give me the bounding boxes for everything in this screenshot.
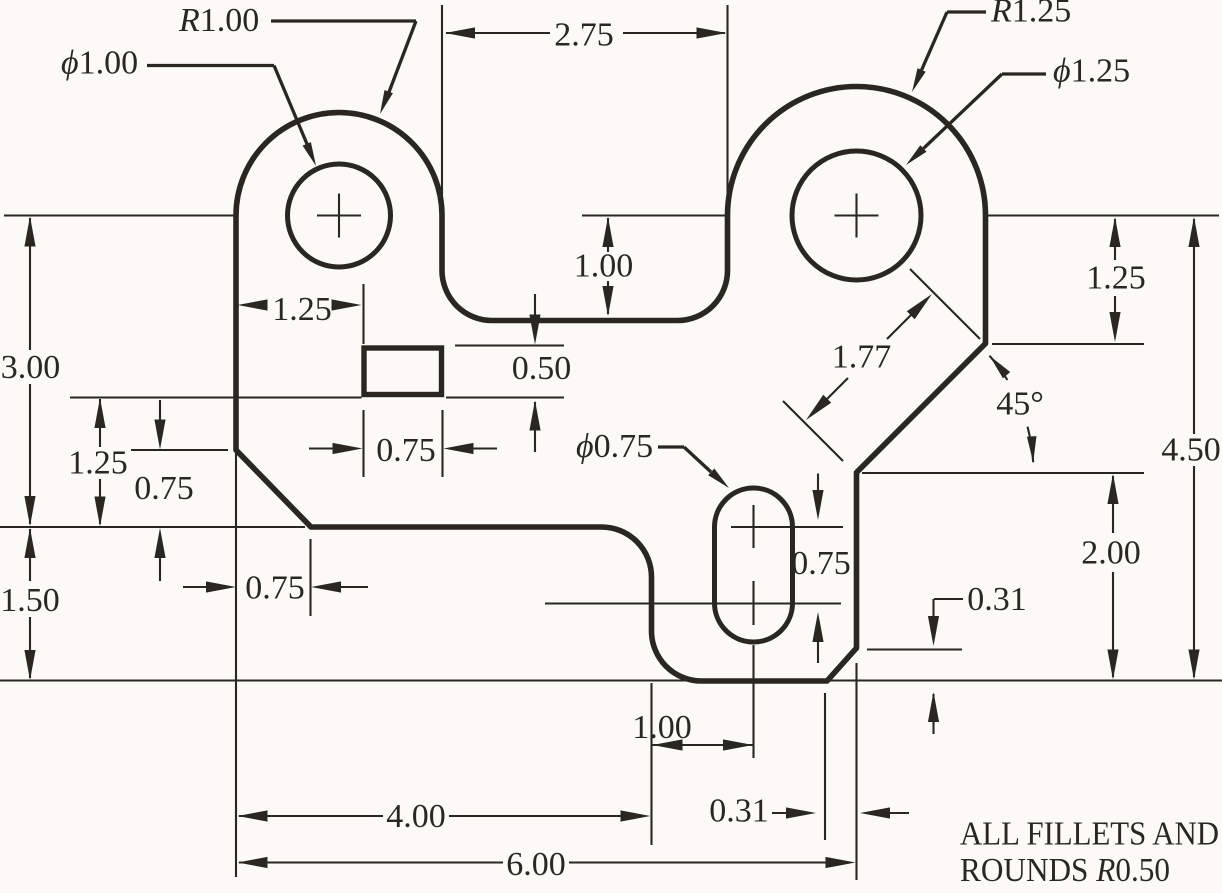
slot lower center cross	[752, 581, 754, 625]
rect right ext down	[441, 410, 443, 477]
dimension 0.75 (slant width)	[183, 586, 210, 588]
svg-text:1.25: 1.25	[272, 291, 332, 328]
rect top ext right	[455, 344, 564, 346]
2.75 right ext	[726, 5, 728, 215]
notch edge ext down	[650, 683, 652, 845]
rect left ext down	[362, 410, 364, 477]
svg-text:0.31: 0.31	[709, 793, 769, 830]
slot upper centerline	[731, 526, 843, 528]
dimension 1.50	[29, 529, 31, 581]
part outline (plate)	[236, 86, 986, 681]
bottom datum line	[0, 679, 1222, 681]
svg-text:4.50: 4.50	[1161, 432, 1221, 469]
dimension 1.25 (left, rect to line)	[99, 399, 101, 447]
right edge ext down	[855, 663, 857, 880]
svg-text:R1.00: R1.00	[178, 2, 259, 39]
svg-text:1.00: 1.00	[632, 709, 692, 746]
svg-text:45°: 45°	[996, 386, 1044, 423]
dimension 2.75	[446, 32, 550, 34]
2.00 top ext line	[862, 472, 1144, 474]
right hole center cross	[835, 214, 879, 216]
svg-text:0.75: 0.75	[245, 570, 305, 607]
top datum line left	[4, 214, 236, 216]
0.31 chamfer ext line	[867, 648, 962, 650]
dimension 0.75 (slant height)	[159, 400, 161, 435]
slot phi 0.75	[715, 488, 793, 642]
slant top corner ext	[131, 449, 228, 451]
svg-text:ALL FILLETS AND: ALL FILLETS AND	[960, 816, 1219, 853]
top datum line middle	[582, 214, 728, 216]
svg-text:1.77: 1.77	[832, 339, 892, 376]
left hole phi 1.00	[288, 164, 391, 267]
svg-text:1.00: 1.00	[574, 248, 634, 285]
svg-text:0.75: 0.75	[791, 545, 851, 582]
svg-text:6.00: 6.00	[506, 846, 566, 883]
dimension 0.75 (rect width)	[309, 447, 340, 449]
3.00 datum line	[0, 526, 305, 528]
leader phi1.25	[1002, 72, 1046, 75]
dimension 1.77 (diagonal)	[910, 269, 980, 339]
svg-text:ROUNDS R0.50: ROUNDS R0.50	[960, 852, 1170, 889]
svg-text:R1.25: R1.25	[990, 0, 1071, 30]
rect left ext up	[362, 284, 364, 344]
rect bottom ext right	[446, 396, 564, 398]
dimension 0.31 (bottom chamfer width)	[772, 812, 790, 814]
leader R1.25	[947, 10, 986, 13]
slant bottom ext	[309, 539, 311, 616]
svg-text:1.25: 1.25	[68, 445, 128, 482]
leader phi1.00	[147, 64, 274, 67]
dimension 6.00	[238, 857, 268, 868]
dimension 1.00 (bottom notch to slot)	[653, 744, 754, 746]
dimension 0.31 (right chamfer height)	[934, 598, 963, 600]
svg-text:3.00: 3.00	[1, 349, 61, 386]
svg-text:0.75: 0.75	[376, 432, 436, 469]
left hole center cross	[317, 214, 361, 216]
leader phi0.75	[658, 445, 684, 448]
chamfer corner ext down	[824, 693, 826, 840]
svg-text:0.31: 0.31	[967, 581, 1027, 618]
svg-text:0.75: 0.75	[134, 470, 194, 507]
dimension 4.50	[1188, 217, 1199, 247]
dimension 2.00	[1107, 474, 1118, 504]
dimension 1.25 (right)	[1114, 219, 1116, 260]
left edge ext down	[235, 452, 237, 877]
svg-text:4.00: 4.00	[386, 798, 446, 835]
dimension 45 degrees	[990, 356, 1008, 380]
slot upper center cross	[752, 505, 754, 548]
svg-text:ϕ1.00: ϕ1.00	[61, 45, 138, 82]
dimension 3.00	[29, 218, 31, 350]
rectangular hole 0.75 x 0.50	[364, 348, 442, 395]
dimension 1.25 (left edge to rect)	[238, 299, 268, 310]
rect bottom ext left	[70, 396, 362, 398]
svg-text:2.75: 2.75	[554, 16, 614, 53]
svg-text:1.50: 1.50	[0, 582, 60, 619]
dimension 4.00	[238, 810, 268, 821]
leader R1.00	[271, 19, 416, 22]
right hole phi 1.25	[792, 151, 921, 280]
svg-text:ϕ1.25: ϕ1.25	[1053, 53, 1130, 90]
svg-text:2.00: 2.00	[1081, 535, 1141, 572]
svg-text:ϕ0.75: ϕ0.75	[576, 428, 653, 465]
2.75 left ext	[441, 5, 443, 212]
svg-text:1.25: 1.25	[1086, 260, 1146, 297]
svg-text:0.50: 0.50	[512, 350, 572, 387]
chamfer top ext line	[992, 343, 1144, 345]
dimension 0.50 (rect height)	[534, 294, 536, 332]
slot centerline down	[752, 645, 754, 758]
top datum line right	[986, 214, 1220, 216]
slot lower centerline	[545, 602, 841, 604]
dimension 1.00 (top middle)	[607, 218, 609, 252]
dimension 0.75 (slot centers)	[817, 474, 819, 506]
